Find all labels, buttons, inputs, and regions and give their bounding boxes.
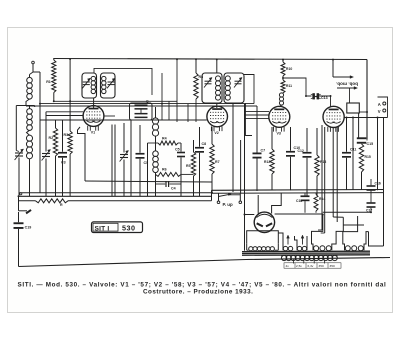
wire right bus low a	[245, 214, 255, 216]
wire T1 top link	[94, 68, 152, 95]
wire g3 link	[333, 216, 343, 218]
capacitor C18	[301, 195, 310, 197]
svg-text:R5: R5	[186, 164, 191, 168]
wire T2 to V2	[216, 103, 218, 108]
resistor R10	[282, 60, 284, 63]
wire L2 link	[27, 130, 30, 135]
coil T1a	[91, 76, 95, 80]
wire bus g1	[54, 100, 177, 102]
coil L2b	[26, 135, 32, 141]
capacitor C11	[346, 118, 348, 152]
svg-text:A: A	[378, 102, 381, 107]
labels voltages	[284, 263, 341, 268]
tube V3	[269, 106, 290, 127]
wire v1 heaters	[111, 125, 113, 197]
svg-text:R3: R3	[64, 133, 69, 137]
wire T2 feed	[216, 60, 218, 74]
wire right to g4	[369, 232, 384, 246]
wire v 353	[352, 118, 354, 191]
svg-text:V: V	[378, 109, 381, 114]
resistor R14	[314, 194, 318, 211]
wire L2 bottom	[29, 159, 31, 196]
resistor R13	[315, 155, 319, 176]
wire left bus a	[19, 192, 212, 194]
wire left bus b	[19, 195, 212, 197]
capacitor C7b	[256, 106, 258, 153]
svg-text:R1: R1	[46, 80, 51, 84]
wire v 162	[161, 73, 163, 120]
wire T2b out	[244, 75, 254, 104]
wire v 188	[187, 104, 189, 122]
coil T2a	[216, 76, 221, 81]
svg-text:4v: 4v	[286, 264, 290, 268]
wire v 131	[130, 120, 132, 196]
svg-text:V1: V1	[91, 131, 95, 135]
capacitor C19	[18, 212, 20, 222]
capacitor C10	[290, 127, 292, 151]
wire bus g3	[26, 105, 257, 107]
wire bus step	[211, 190, 213, 201]
wire right bus a	[212, 189, 384, 192]
wire into V1	[46, 115, 83, 117]
svg-text:R4: R4	[162, 137, 167, 141]
svg-text:C19: C19	[25, 226, 32, 230]
resistor R7	[210, 144, 214, 174]
transformer winding g2a	[283, 246, 287, 250]
transformer winding g4	[345, 246, 350, 251]
wire v 169	[168, 101, 170, 120]
wire bus g4	[40, 119, 207, 121]
svg-text:350: 350	[330, 264, 335, 268]
svg-text:C15: C15	[367, 142, 374, 146]
resistor R8	[194, 73, 198, 99]
svg-text:SIT I: SIT I	[95, 225, 110, 232]
wire bob mob arrows	[332, 60, 334, 78]
svg-text:2,5v: 2,5v	[296, 264, 302, 268]
coil L3 oscillator	[152, 118, 158, 124]
coil grid choke	[279, 93, 283, 97]
resistor R16 bus	[19, 200, 36, 202]
resistor R6	[156, 172, 182, 176]
coil T2b	[225, 76, 230, 81]
svg-text:C3: C3	[61, 161, 66, 165]
resistor R3	[68, 131, 72, 154]
svg-text:350: 350	[319, 264, 324, 268]
svg-text:R11: R11	[286, 84, 292, 88]
wire v 244	[244, 104, 246, 251]
switch	[18, 196, 20, 211]
coil T1b	[102, 76, 106, 80]
wire v 147	[147, 143, 149, 197]
capacitor C4 trimmer	[123, 123, 125, 153]
label box SITI 530	[92, 222, 143, 233]
svg-text:SITI. — Mod. 530. – Valvole: V: SITI. — Mod. 530. – Valvole: V1 – '57; V…	[18, 281, 387, 288]
resistor R11	[282, 76, 284, 80]
wire v5 plate leads	[257, 195, 259, 214]
IF transformer T2b box	[224, 73, 244, 103]
wire coupling C13	[283, 78, 312, 96]
IF transformer T1a box	[82, 73, 97, 98]
wire bus g2	[40, 103, 254, 105]
wire varcap drop	[246, 103, 253, 136]
capacitor C6	[177, 152, 185, 154]
wire v 240	[240, 140, 242, 193]
svg-text:C7: C7	[261, 149, 266, 153]
svg-text:R12: R12	[264, 160, 270, 164]
wires into V3	[245, 110, 269, 112]
wire v4 heaters	[321, 125, 323, 230]
coil L2a	[27, 109, 33, 115]
wire v 70	[69, 59, 71, 131]
capacitor C1 variable	[15, 106, 17, 151]
tube V2	[207, 106, 228, 127]
capacitor C12	[306, 128, 308, 152]
terminal A	[383, 102, 386, 105]
resistor R4	[148, 142, 159, 144]
resistor R5	[191, 152, 195, 176]
svg-text:C13: C13	[321, 96, 328, 100]
terminal P up	[218, 193, 220, 201]
transformer core	[242, 250, 370, 252]
transformer output box	[347, 103, 360, 113]
capacitor C16	[370, 179, 372, 185]
svg-text:C: C	[146, 100, 149, 104]
capacitor C8	[199, 127, 201, 147]
resistor R2	[53, 128, 57, 156]
transformer winding V5 heater	[249, 247, 253, 251]
wire v2 side	[206, 119, 208, 121]
capacitor C5	[139, 125, 141, 153]
wire heater bends	[318, 229, 322, 231]
capacitor C7	[155, 174, 157, 184]
wire HT drop right	[366, 60, 368, 140]
svg-text:C18: C18	[296, 199, 302, 203]
wire v 377	[377, 118, 379, 191]
tube V1	[93, 98, 95, 108]
wire C13 to V4	[319, 96, 330, 107]
capacitor C15 dark	[357, 137, 367, 139]
svg-text:R6: R6	[162, 168, 167, 172]
wire core line	[39, 72, 41, 193]
arrow tap a	[287, 237, 289, 245]
svg-text:Costruttore. – Produzione 1933: Costruttore. – Produzione 1933.	[143, 289, 253, 296]
wire antenna lead	[33, 64, 40, 72]
svg-text:C16: C16	[375, 182, 381, 186]
wire top bus	[53, 59, 367, 60]
svg-text:C8: C8	[202, 142, 207, 146]
svg-text:V2: V2	[214, 131, 218, 135]
transformer primary box	[247, 231, 279, 244]
wire right bus b	[212, 192, 384, 195]
terminal antenna	[32, 61, 35, 64]
wire bottom frame	[19, 258, 391, 267]
tube V5 rectifier	[254, 212, 274, 232]
svg-text:V3: V3	[277, 132, 281, 136]
svg-text:C12: C12	[298, 149, 304, 153]
terminal V	[383, 109, 386, 112]
wire v4 plate to AV	[344, 117, 387, 119]
junction dots	[69, 58, 71, 60]
svg-text:R14: R14	[319, 197, 325, 201]
wire g4 link	[343, 224, 364, 226]
terminal left	[20, 193, 22, 195]
svg-text:C4: C4	[171, 187, 176, 191]
capacitor C3	[62, 120, 64, 152]
wire v 383	[383, 118, 385, 247]
svg-text:C5: C5	[175, 148, 180, 152]
capacitor C2 trimmer	[45, 112, 47, 152]
svg-text:bob. mob.: bob. mob.	[336, 81, 358, 86]
wire L2 top bracket	[16, 105, 34, 107]
wire out box right	[359, 111, 367, 113]
wire v1 cathode	[78, 127, 86, 181]
tube V4	[323, 106, 344, 127]
transformer secondary	[282, 255, 287, 260]
capacitor C13	[312, 93, 315, 99]
resistor R15	[359, 144, 363, 172]
IF transformer T2a box	[202, 73, 222, 103]
IF transformer T1b box	[101, 73, 116, 98]
svg-text:R13: R13	[320, 160, 326, 164]
capacitor C padder box	[130, 103, 153, 120]
resistor R12	[270, 149, 274, 174]
resistor R1	[53, 59, 55, 61]
wire AV link	[378, 97, 388, 118]
svg-text:6,3v: 6,3v	[308, 264, 314, 268]
svg-text:R2: R2	[49, 136, 54, 140]
svg-text:R10: R10	[286, 67, 292, 71]
transformer winding g2b	[297, 246, 301, 250]
svg-text:R: R	[60, 203, 63, 207]
wire out box down	[358, 113, 360, 138]
transformer winding g3	[314, 246, 319, 251]
svg-text:530: 530	[122, 224, 136, 233]
wire v 233	[232, 104, 234, 192]
svg-text:R7: R7	[215, 160, 220, 164]
arrow tap b	[302, 237, 304, 245]
wire right bus low b	[323, 211, 371, 213]
svg-text:P. up: P. up	[223, 202, 233, 207]
wire left bus upper	[85, 181, 212, 182]
svg-text:R15: R15	[365, 155, 371, 159]
capacitor C17	[367, 202, 376, 204]
wire v 177	[176, 59, 178, 122]
coil L1 antenna primary	[29, 75, 31, 78]
